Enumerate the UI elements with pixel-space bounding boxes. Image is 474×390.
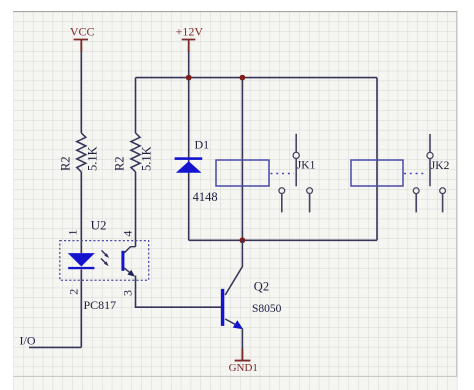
svg-text:PC817: PC817 xyxy=(84,298,117,312)
svg-text:1: 1 xyxy=(66,230,80,236)
diode D1 cathode bar xyxy=(175,157,203,160)
svg-text:+12V: +12V xyxy=(176,24,204,38)
svg-text:5.1K: 5.1K xyxy=(140,146,154,171)
svg-text:5.1K: 5.1K xyxy=(86,146,100,171)
wire top rail +12V xyxy=(136,77,378,79)
wire bottom rail xyxy=(189,239,377,241)
relay JK1 coil xyxy=(216,160,269,186)
LED triangle (U2) xyxy=(68,253,95,266)
transistor Q2 base bar xyxy=(221,289,224,326)
relay JK1 common contact circle xyxy=(293,152,299,158)
wire Q2 emitter to ground xyxy=(241,329,243,350)
optocoupler U2 dashed body xyxy=(60,241,149,281)
ground GND1 symbol xyxy=(229,349,258,375)
light arrow 1 xyxy=(102,250,110,258)
phototransistor emitter lead with arrow (U2) xyxy=(124,268,135,277)
relay JK1 dashed link xyxy=(271,173,295,175)
svg-text:VCC: VCC xyxy=(70,24,95,38)
svg-text:S8050: S8050 xyxy=(252,303,282,315)
wire JK2 coil feed xyxy=(376,78,378,241)
resistor R2 (right) zigzag xyxy=(131,133,140,172)
svg-text:JK2: JK2 xyxy=(431,160,450,172)
svg-text:R2: R2 xyxy=(113,156,127,171)
svg-text:R2: R2 xyxy=(59,156,73,171)
transistor Q2 emitter lead with arrow xyxy=(225,319,243,329)
wire R2 bottom to optocoupler pin 1 / LED xyxy=(80,172,82,253)
junction dot at Q2 collector / bottom rail xyxy=(240,237,246,243)
wire right R2 bottom to opto pin 4 xyxy=(135,172,137,247)
relay JK2 dashed link xyxy=(404,173,427,175)
relay JK2 armature xyxy=(429,159,431,187)
phototransistor bar (U2) xyxy=(121,251,124,271)
wire VCC net vertical to R2 top xyxy=(80,46,82,133)
relay JK2 common contact circle xyxy=(427,152,433,158)
svg-text:4: 4 xyxy=(120,231,134,237)
relay JK2 coil xyxy=(351,160,403,186)
svg-text:3: 3 xyxy=(120,290,134,296)
resistor R2 (left) zigzag xyxy=(77,133,86,172)
transistor Q2 collector lead xyxy=(225,240,242,295)
svg-text:2: 2 xyxy=(66,289,80,295)
wire right R2 column top xyxy=(135,78,137,133)
relay JK2 NC contact xyxy=(413,188,419,213)
svg-text:Q2: Q2 xyxy=(254,280,269,294)
wire I/O horizontal xyxy=(29,346,81,348)
light arrow 2 xyxy=(101,259,109,267)
diode D1 triangle xyxy=(176,161,202,173)
relay JK1 armature xyxy=(295,159,297,187)
junction dot at +12V / top rail xyxy=(186,75,192,81)
svg-text:GND1: GND1 xyxy=(229,362,258,374)
relay JK2 NO contact xyxy=(440,188,446,213)
LED cathode bar (U2) xyxy=(68,267,94,269)
svg-text:I/O: I/O xyxy=(20,334,36,348)
svg-text:JK1: JK1 xyxy=(297,160,316,172)
wire JK1 coil feed xyxy=(241,78,243,241)
relay JK1 NO contact xyxy=(307,188,313,213)
power VCC symbol xyxy=(70,24,95,52)
relay JK2 common pin xyxy=(429,134,431,152)
relay JK1 common pin xyxy=(295,134,297,153)
junction dot at JK1 feed / top rail xyxy=(240,75,246,81)
phototransistor collector lead (U2) xyxy=(124,247,135,253)
svg-text:D1: D1 xyxy=(195,138,210,152)
wire opto pin 3 down and right to Q2 base xyxy=(136,276,222,308)
svg-text:U2: U2 xyxy=(91,218,107,233)
relay JK1 NC contact xyxy=(279,188,285,213)
wire LED cathode to I/O corner xyxy=(80,270,82,348)
wire +12V stub down to D1 and bottom rail xyxy=(188,47,190,240)
svg-text:4148: 4148 xyxy=(193,190,218,204)
power +12V symbol xyxy=(176,24,204,52)
